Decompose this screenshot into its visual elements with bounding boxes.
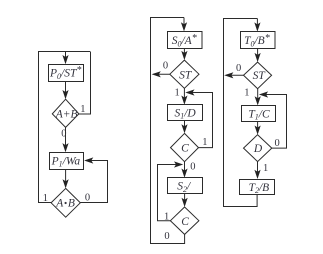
svg-text:C: C [181,143,189,155]
wire ST to T1 [257,89,259,104]
decision diamond C (lower) [170,207,199,234]
svg-text:1: 1 [175,87,180,98]
decision diamond A+B [52,99,79,127]
state box S1/D [168,105,203,121]
wire middle loop (C2 0-branch return to top) [151,18,185,244]
wire P1 to A·B [65,170,67,187]
decision diamond ST (middle) [170,60,199,88]
wire ST to S1 [183,88,185,103]
svg-text:0: 0 [85,192,90,203]
state box P1/Wa [50,153,84,170]
svg-text:1: 1 [80,104,85,115]
svg-text:0: 0 [164,231,169,242]
svg-text:0: 0 [275,138,280,149]
wire right loop (T2 exit return to top) [224,19,258,207]
wire A+B to P1 [65,127,67,150]
svg-text:D: D [253,143,263,155]
svg-text:T2/B: T2/B [249,182,270,195]
svg-text:A+B: A+B [55,109,78,121]
wire A·B 0-branch back into P1 [80,161,107,203]
svg-text:P1/Wa: P1/Wa [51,155,81,168]
svg-text:1: 1 [164,211,169,222]
wire C 1-branch feedback join above S1 [188,93,213,148]
wire P0 to A+B [65,82,67,98]
decision diamond A·B [51,188,80,217]
svg-text:T1/C: T1/C [248,108,270,121]
wire D to T2 [257,162,259,178]
svg-text:S1/D: S1/D [174,108,196,121]
wire ST 0-branch to loop line [154,73,170,75]
svg-text:1: 1 [43,193,48,204]
svg-text:ST: ST [253,70,267,82]
state box P0/ST* [49,65,84,82]
svg-text:0: 0 [190,162,195,173]
svg-text:A: A [55,197,64,209]
state box T0/B* [241,32,276,49]
wire S2 to C2 [184,194,186,206]
svg-text:0: 0 [236,63,241,74]
wire S0 to ST [183,49,185,59]
decision diamond D [244,135,272,162]
svg-text:1: 1 [202,137,207,148]
state box T1/C [242,106,276,122]
state box T2/B [240,180,275,195]
wire C2 1-branch feedback join above S2 [158,165,181,221]
wire entry arrow into S0 [183,18,185,30]
svg-text:ST: ST [179,70,193,82]
state box S0/A* [168,32,203,49]
wire entry arrow into T0 [256,19,258,30]
wire ST 0-branch to loop line [226,74,243,76]
wire C to S2 [184,162,186,176]
wire S1 to C [184,121,186,132]
wire T0 to ST [257,49,259,61]
svg-text:1: 1 [244,88,249,99]
decision diamond ST (right) [244,62,272,89]
wire entry arrow into P0 [65,52,67,62]
svg-text:B: B [68,197,75,209]
svg-text:0: 0 [163,61,168,72]
state box S2/ [168,178,203,194]
decision diamond C (upper) [171,133,199,161]
wire A+B 1-branch feedback [79,52,91,114]
wire D 0-branch feedback join above T1 [261,95,286,149]
wire left loop (A·B 1-branch return to top) [39,52,91,203]
svg-text:1: 1 [263,163,268,174]
wire T1 to D [257,122,259,133]
svg-text:C: C [181,216,189,228]
